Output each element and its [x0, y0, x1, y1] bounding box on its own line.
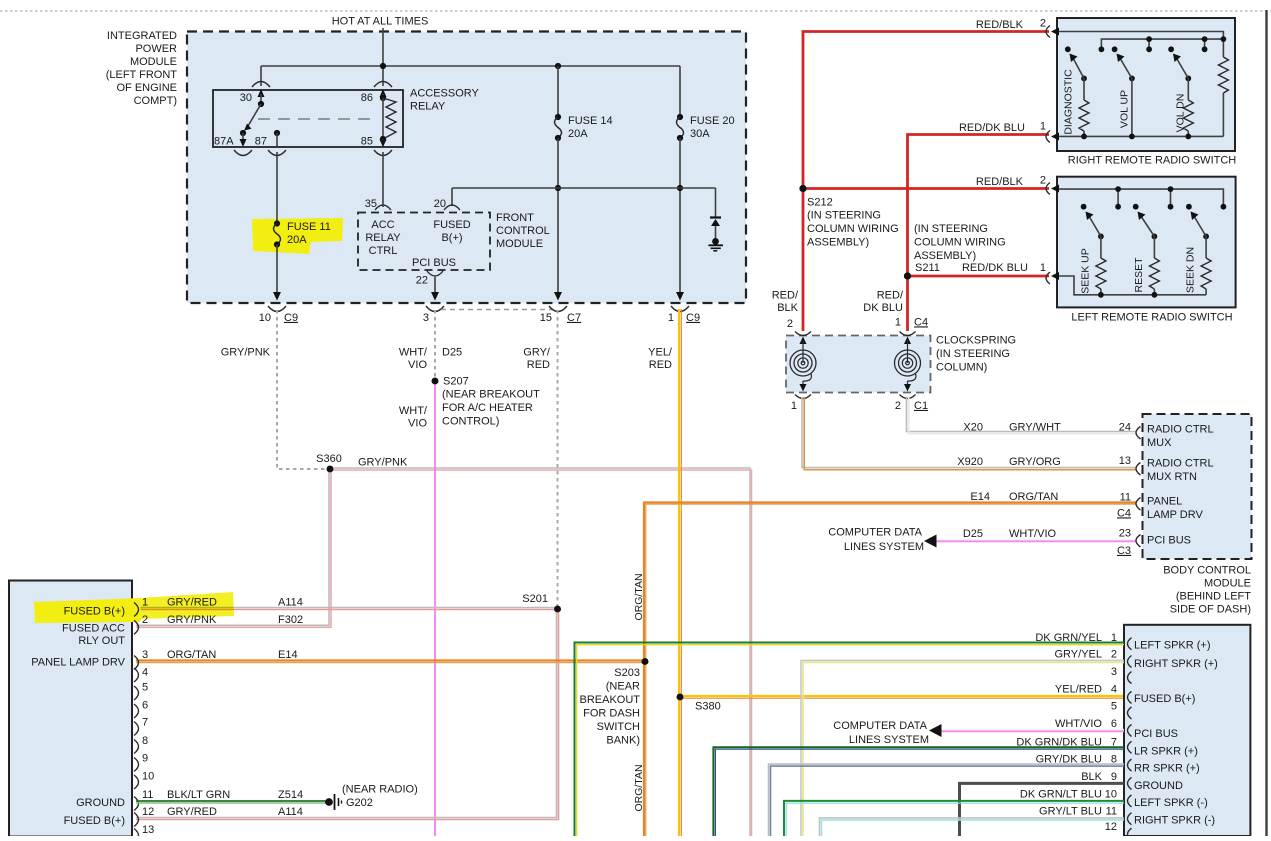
svg-text:10: 10 — [259, 312, 271, 324]
svg-text:ORG/TAN: ORG/TAN — [1009, 491, 1058, 503]
svg-text:87: 87 — [255, 135, 267, 147]
svg-text:LINES SYSTEM: LINES SYSTEM — [849, 734, 929, 746]
svg-text:RIGHT SPKR (-): RIGHT SPKR (-) — [1134, 814, 1215, 826]
svg-text:E14: E14 — [278, 649, 298, 661]
svg-text:13: 13 — [142, 824, 154, 836]
svg-text:ASSEMBLY): ASSEMBLY) — [914, 250, 976, 262]
svg-text:1: 1 — [895, 316, 901, 328]
node S380 dot overlay — [677, 694, 684, 701]
wire GRY/PNK dashed from C9-10 — [221, 310, 327, 469]
svg-text:FUSE 20: FUSE 20 — [690, 115, 735, 127]
node S201 — [522, 593, 561, 612]
wire ORG/TAN riser to BCM — [633, 503, 1136, 662]
radio connector pin arcs — [1128, 638, 1132, 841]
svg-text:2: 2 — [787, 318, 793, 330]
right switch vol dn contact — [1168, 46, 1174, 52]
svg-text:GRY/LT BLU: GRY/LT BLU — [1039, 806, 1102, 818]
relay pin 86 terminal — [361, 82, 392, 104]
right switch bottom bus — [1059, 134, 1223, 140]
accessory relay label — [410, 87, 480, 112]
svg-text:5: 5 — [142, 681, 148, 693]
svg-text:S360: S360 — [316, 453, 342, 465]
front control module label — [496, 212, 550, 250]
svg-text:7: 7 — [142, 716, 148, 728]
svg-text:FOR A/C HEATER: FOR A/C HEATER — [442, 402, 533, 414]
svg-text:PCI BUS: PCI BUS — [412, 257, 456, 269]
wire WHT/VIO S207 down — [399, 381, 435, 836]
ground G202 — [325, 783, 418, 810]
wire diode drop — [715, 188, 717, 218]
wire branch to fuse 20 — [679, 66, 681, 117]
wire GRY/WHT C1-2 to BCM 24 — [907, 397, 1137, 434]
left connector wire color labels — [167, 596, 230, 818]
switch SEEK UP — [1079, 212, 1106, 295]
ground in IPM — [708, 238, 723, 251]
svg-text:CLOCKSPRING: CLOCKSPRING — [936, 334, 1016, 346]
svg-text:RIGHT REMOTE RADIO SWITCH: RIGHT REMOTE RADIO SWITCH — [1068, 154, 1237, 166]
wire fcm pin20 drop — [451, 188, 453, 206]
wire hot bus horizontal — [261, 65, 680, 67]
wire DK GRN/DK BLU radio pin 7 — [714, 747, 1125, 836]
relay switch arm 30-87A — [240, 101, 264, 136]
svg-text:MODULE: MODULE — [496, 238, 543, 250]
relay pin 30 terminal — [240, 82, 270, 105]
svg-text:DK GRN/LT BLU: DK GRN/LT BLU — [1020, 789, 1102, 801]
wire 87 to fuse 11 — [276, 152, 278, 224]
left switch seek dn contact — [1186, 204, 1192, 210]
svg-text:VOL DN: VOL DN — [1174, 94, 1186, 133]
svg-text:S203: S203 — [614, 667, 640, 679]
svg-text:20: 20 — [434, 198, 446, 210]
node S207 — [432, 375, 540, 427]
svg-text:COMPUTER DATA: COMPUTER DATA — [833, 720, 927, 732]
wire GRY/YEL radio pin 2 — [801, 660, 1124, 836]
svg-text:F302: F302 — [278, 614, 303, 626]
wire YEL/RED from C9-1 — [648, 309, 681, 697]
svg-text:1: 1 — [1040, 262, 1046, 274]
radio left connector box — [9, 581, 132, 837]
svg-text:FUSED: FUSED — [433, 219, 470, 231]
wire ORG/TAN from radio pin 3 to S203 — [136, 661, 645, 663]
svg-text:LAMP DRV: LAMP DRV — [1147, 509, 1204, 521]
bcm pin 23 — [1117, 527, 1191, 557]
svg-text:(BEHIND LEFT: (BEHIND LEFT — [1176, 590, 1251, 602]
svg-text:6: 6 — [1111, 718, 1117, 730]
highlight pin 1 row — [34, 592, 234, 623]
clockspring coil left — [790, 332, 816, 399]
radio connector pin labels — [1134, 639, 1218, 826]
svg-text:24: 24 — [1119, 421, 1131, 433]
svg-text:20A: 20A — [568, 128, 588, 140]
svg-text:VIO: VIO — [408, 359, 427, 371]
svg-text:PANEL: PANEL — [1147, 495, 1182, 507]
svg-text:GROUND: GROUND — [76, 797, 125, 809]
svg-text:WHT/: WHT/ — [399, 346, 428, 358]
svg-text:3: 3 — [423, 312, 429, 324]
svg-text:RLY OUT: RLY OUT — [78, 635, 125, 647]
left switch bottom bus — [1059, 276, 1206, 298]
wire RED/DK BLU left switch pin 1 — [908, 262, 1050, 276]
fcm pin 20 — [434, 198, 460, 210]
svg-text:VIO: VIO — [408, 417, 427, 429]
svg-text:COLUMN): COLUMN) — [936, 361, 987, 373]
wire fuse20 to C9-1 — [676, 138, 684, 301]
svg-text:(LEFT FRONT: (LEFT FRONT — [106, 69, 178, 81]
svg-text:10: 10 — [1105, 789, 1117, 801]
svg-text:FUSED B(+): FUSED B(+) — [1134, 693, 1195, 705]
right switch pin 1 entry — [1046, 131, 1059, 143]
node S360 — [316, 453, 342, 472]
svg-text:4: 4 — [1111, 684, 1117, 696]
svg-text:WHT/VIO: WHT/VIO — [1009, 528, 1056, 540]
relay pin 87A terminal — [214, 133, 252, 156]
connector C1 labels — [791, 400, 928, 412]
wire WHT/VIO dashed from pin 3 — [399, 310, 462, 379]
svg-text:87A: 87A — [214, 135, 234, 147]
left connector pin labels — [31, 605, 125, 827]
fcm pin 35 — [365, 152, 391, 210]
svg-text:GRY/PNK: GRY/PNK — [358, 456, 408, 468]
svg-text:RED: RED — [649, 359, 672, 371]
svg-text:S212: S212 — [807, 196, 833, 208]
svg-text:6: 6 — [142, 699, 148, 711]
svg-text:FUSED B(+): FUSED B(+) — [64, 605, 125, 617]
svg-text:RED/BLK: RED/BLK — [976, 19, 1024, 31]
node S380 — [677, 694, 721, 713]
svg-text:E14: E14 — [970, 491, 990, 503]
node S201 dot overlay — [554, 606, 561, 613]
relay pin 87 terminal — [255, 130, 286, 156]
left switch seek up contact — [1081, 204, 1087, 210]
radio connector pin numbers — [1105, 632, 1117, 833]
svg-text:15: 15 — [540, 312, 552, 324]
svg-text:CONTROL): CONTROL) — [442, 415, 499, 427]
left switch reset contact — [1133, 204, 1139, 210]
svg-text:WHT/VIO: WHT/VIO — [1055, 718, 1102, 730]
svg-text:3: 3 — [1111, 666, 1117, 678]
diode D1 — [710, 218, 721, 242]
node S212 — [799, 185, 898, 249]
node junction fuse14 — [555, 63, 561, 69]
left switch pin 1 entry — [1046, 272, 1059, 284]
svg-text:CONTROL: CONTROL — [496, 225, 550, 237]
svg-text:LEFT REMOTE RADIO SWITCH: LEFT REMOTE RADIO SWITCH — [1071, 311, 1232, 323]
svg-text:S380: S380 — [695, 700, 721, 712]
svg-text:D25: D25 — [442, 346, 462, 358]
wire GRY/PNK S360 to right drop — [330, 456, 752, 836]
svg-text:RIGHT SPKR (+): RIGHT SPKR (+) — [1134, 658, 1218, 670]
switch RESET — [1133, 212, 1160, 295]
left remote radio switch box — [1057, 177, 1236, 324]
svg-text:9: 9 — [1111, 771, 1117, 783]
svg-text:RED/DK BLU: RED/DK BLU — [959, 122, 1025, 134]
svg-text:30A: 30A — [690, 128, 710, 140]
svg-text:LR SPKR (+): LR SPKR (+) — [1134, 745, 1198, 757]
wire DK GRN/YEL radio pin 1 — [575, 643, 1125, 837]
right switch diagnostic contact — [1065, 46, 1071, 52]
svg-text:85: 85 — [361, 135, 373, 147]
svg-text:GRY/PNK: GRY/PNK — [221, 346, 271, 358]
svg-text:COMPUTER DATA: COMPUTER DATA — [828, 526, 922, 538]
svg-text:INTEGRATED: INTEGRATED — [107, 30, 177, 42]
switch DIAGNOSTIC — [1062, 54, 1089, 137]
svg-text:4: 4 — [142, 666, 148, 678]
svg-text:12: 12 — [142, 806, 154, 818]
svg-text:13: 13 — [1119, 455, 1131, 467]
svg-text:S211: S211 — [915, 262, 940, 274]
wire ORG/TAN S203 down — [633, 662, 646, 837]
svg-text:COLUMN WIRING: COLUMN WIRING — [914, 236, 1006, 248]
svg-text:FOR DASH: FOR DASH — [583, 707, 640, 719]
svg-text:ACC: ACC — [371, 219, 394, 231]
svg-text:RED/DK BLU: RED/DK BLU — [962, 262, 1028, 274]
svg-text:COLUMN WIRING: COLUMN WIRING — [807, 223, 899, 235]
svg-text:RR SPKR (+): RR SPKR (+) — [1134, 762, 1200, 774]
relay coil — [380, 95, 396, 142]
svg-text:20A: 20A — [287, 234, 307, 246]
right switch vol up contact — [1112, 46, 1118, 52]
svg-text:DIAGNOSTIC: DIAGNOSTIC — [1062, 69, 1074, 135]
svg-text:GRY/RED: GRY/RED — [167, 596, 217, 608]
svg-text:C9: C9 — [284, 312, 298, 324]
svg-text:COMPT): COMPT) — [134, 95, 177, 107]
svg-text:DK BLU: DK BLU — [863, 302, 903, 314]
accessory relay box — [213, 90, 403, 147]
svg-text:PCI BUS: PCI BUS — [1134, 728, 1178, 740]
switch VOL DN — [1173, 54, 1193, 137]
svg-text:RED/: RED/ — [772, 289, 799, 301]
svg-text:RED/BLK: RED/BLK — [976, 176, 1024, 188]
svg-text:MUX: MUX — [1147, 437, 1172, 449]
svg-text:LEFT SPKR (+): LEFT SPKR (+) — [1134, 639, 1211, 651]
connector C9 pin 1 — [668, 306, 700, 324]
svg-text:MODULE: MODULE — [130, 56, 177, 68]
svg-text:S201: S201 — [522, 593, 548, 605]
svg-text:2: 2 — [142, 614, 148, 626]
svg-text:ORG/TAN: ORG/TAN — [633, 764, 645, 811]
bcm pin 13 — [1119, 455, 1214, 483]
body control module box — [1143, 414, 1252, 559]
bcm pin 11 — [1117, 491, 1204, 521]
svg-text:HOT AT ALL TIMES: HOT AT ALL TIMES — [332, 15, 429, 27]
svg-text:22: 22 — [416, 274, 428, 286]
svg-text:VOL UP: VOL UP — [1118, 90, 1130, 128]
svg-text:23: 23 — [1119, 527, 1131, 539]
svg-text:(IN STEERING: (IN STEERING — [936, 348, 1010, 360]
svg-text:86: 86 — [361, 92, 373, 104]
svg-text:GRY/PNK: GRY/PNK — [167, 614, 217, 626]
svg-text:(NEAR BREAKOUT: (NEAR BREAKOUT — [442, 388, 540, 400]
wire GRY/RED dashed from C7-15 — [523, 310, 557, 607]
left switch wire A — [1059, 186, 1226, 209]
wire GRY/RED S201 to pin 1 — [136, 608, 558, 610]
svg-text:FUSED ACC: FUSED ACC — [62, 622, 125, 634]
left switch pin 2 entry — [1046, 183, 1059, 195]
svg-text:30: 30 — [240, 92, 252, 104]
svg-text:1: 1 — [1040, 120, 1046, 132]
wire RED/DK BLU right switch pin 1 — [908, 120, 1050, 276]
svg-text:9: 9 — [142, 752, 148, 764]
svg-text:GRY/ORG: GRY/ORG — [1009, 456, 1061, 468]
svg-text:BANK): BANK) — [606, 734, 640, 746]
node S211 dot overlay — [904, 272, 911, 279]
computer data lines system label upper — [828, 526, 924, 553]
svg-text:(NEAR RADIO): (NEAR RADIO) — [342, 783, 418, 795]
svg-text:1: 1 — [668, 312, 674, 324]
svg-text:12: 12 — [1105, 821, 1117, 833]
svg-text:FUSE 14: FUSE 14 — [568, 115, 613, 127]
wire ORG/TAN label E14 — [970, 491, 1058, 503]
svg-text:ORG/TAN: ORG/TAN — [633, 573, 645, 620]
svg-text:RESET: RESET — [1133, 257, 1145, 293]
svg-text:CTRL: CTRL — [369, 245, 398, 257]
svg-text:Z514: Z514 — [278, 789, 303, 801]
integrated power module box — [187, 32, 746, 304]
fcm pin labels — [365, 219, 470, 269]
svg-text:11: 11 — [1120, 491, 1131, 503]
svg-text:RELAY: RELAY — [410, 100, 446, 112]
switch SEEK DN — [1184, 212, 1211, 295]
svg-text:GRY/YEL: GRY/YEL — [1055, 648, 1103, 660]
svg-text:PANEL LAMP DRV: PANEL LAMP DRV — [31, 656, 125, 668]
svg-text:YEL/: YEL/ — [648, 346, 673, 358]
svg-text:GRY/RED: GRY/RED — [167, 806, 217, 818]
right switch bus B — [1099, 36, 1227, 52]
svg-text:RELAY: RELAY — [365, 232, 401, 244]
svg-text:SWITCH: SWITCH — [597, 721, 640, 733]
svg-text:C4: C4 — [914, 316, 928, 328]
svg-text:BLK: BLK — [1081, 771, 1102, 783]
integrated power module label — [106, 30, 178, 107]
fcm pin 22 — [416, 271, 443, 301]
svg-text:1: 1 — [142, 596, 148, 608]
radio right connector box — [1124, 625, 1250, 836]
svg-text:(IN STEERING: (IN STEERING — [914, 223, 988, 235]
wire RED/BLK right switch pin 2 — [803, 17, 1049, 188]
svg-text:B(+): B(+) — [441, 232, 462, 244]
page right window border — [1265, 10, 1267, 836]
svg-text:(IN STEERING: (IN STEERING — [807, 209, 881, 221]
wire branch to fuse 14 — [557, 66, 559, 117]
svg-text:RADIO CTRL: RADIO CTRL — [1147, 457, 1214, 469]
svg-text:C4: C4 — [1117, 507, 1131, 519]
wire GRY/LT BLU radio pin 11 — [820, 818, 1125, 836]
svg-text:8: 8 — [142, 735, 148, 747]
svg-text:2: 2 — [1040, 17, 1046, 29]
wire RED/BLK left switch pin 2 — [803, 174, 1049, 188]
svg-text:SEEK UP: SEEK UP — [1079, 248, 1091, 294]
svg-text:OF ENGINE: OF ENGINE — [116, 82, 177, 94]
node S207 dot overlay — [432, 378, 439, 385]
connector pin 3 — [423, 306, 444, 324]
wire fcm pin20 bus — [452, 187, 716, 189]
svg-text:10: 10 — [142, 770, 154, 782]
wire GRY/RED S201 to pin 12 — [136, 609, 559, 820]
svg-text:2: 2 — [895, 400, 901, 412]
page top dotted separator — [0, 10, 1271, 12]
svg-text:2: 2 — [1040, 174, 1046, 186]
left connector circuit ids — [278, 596, 303, 818]
svg-text:BLK: BLK — [777, 302, 798, 314]
svg-text:BODY CONTROL: BODY CONTROL — [1163, 564, 1251, 576]
node S360 dot overlay — [327, 466, 334, 473]
fuse F20 — [677, 114, 735, 141]
svg-text:MODULE: MODULE — [1204, 577, 1251, 589]
svg-text:MUX RTN: MUX RTN — [1147, 471, 1197, 483]
node HOT AT ALL TIMES — [332, 15, 429, 27]
svg-text:ACCESSORY: ACCESSORY — [410, 87, 480, 99]
node S211 — [904, 223, 1006, 280]
svg-text:SIDE OF DASH): SIDE OF DASH) — [1170, 603, 1251, 615]
svg-text:ASSEMBLY): ASSEMBLY) — [807, 236, 869, 248]
svg-text:ORG/TAN: ORG/TAN — [167, 649, 216, 661]
svg-text:GRY/WHT: GRY/WHT — [1009, 421, 1061, 433]
relay pin 85 terminal — [361, 135, 392, 155]
wire DK GRN/LT BLU radio pin 10 — [784, 801, 1124, 836]
svg-text:A114: A114 — [278, 806, 303, 818]
wire WHT/VIO to BCM 23 — [924, 528, 1136, 548]
svg-text:BLK/LT GRN: BLK/LT GRN — [167, 789, 230, 801]
connector dashed link — [441, 309, 552, 311]
wire YEL/RED S380 down — [679, 697, 681, 836]
left connector pin numbers — [142, 596, 154, 836]
svg-text:11: 11 — [1106, 806, 1117, 818]
bcm pin 24 — [1119, 421, 1214, 449]
highlight over fuse 11 — [252, 218, 343, 254]
wire YEL/RED S380 to radio pin 4 — [680, 696, 1124, 698]
fuse F11 — [274, 220, 331, 247]
node junction hot/86 — [380, 63, 386, 69]
svg-text:X920: X920 — [957, 456, 983, 468]
svg-text:D25: D25 — [963, 528, 983, 540]
svg-text:SEEK DN: SEEK DN — [1184, 247, 1196, 293]
svg-text:C1: C1 — [914, 400, 928, 412]
svg-text:WHT/: WHT/ — [399, 405, 428, 417]
svg-text:2: 2 — [1111, 648, 1117, 660]
svg-text:3: 3 — [142, 649, 148, 661]
left connector pin arcs — [134, 603, 139, 841]
right switch wire A — [1059, 32, 1223, 58]
svg-text:GROUND: GROUND — [1134, 780, 1183, 792]
svg-text:11: 11 — [142, 789, 153, 801]
node S212 dot overlay — [799, 185, 806, 192]
svg-text:FUSE 11: FUSE 11 — [287, 221, 331, 233]
svg-text:RADIO CTRL: RADIO CTRL — [1147, 423, 1214, 435]
svg-text:C3: C3 — [1117, 545, 1131, 557]
computer data lines system label lower — [833, 720, 929, 746]
wire branch to relay pin 30 — [260, 66, 262, 86]
switch VOL UP — [1117, 54, 1135, 137]
connector C9 pin 10 — [259, 306, 298, 324]
svg-text:G202: G202 — [346, 797, 373, 809]
node junction fuse14/fcm20 — [555, 185, 561, 191]
node S203 dot overlay — [642, 658, 649, 665]
fuse F14 — [555, 114, 613, 141]
wire RED/BLK S212 to clockspring — [772, 189, 803, 332]
svg-text:X20: X20 — [963, 421, 983, 433]
svg-text:PCI BUS: PCI BUS — [1147, 534, 1191, 546]
front control module box — [358, 213, 490, 271]
svg-text:(NEAR: (NEAR — [606, 680, 640, 692]
clockspring box — [786, 334, 1016, 392]
clockspring coil right — [895, 332, 921, 399]
svg-text:BREAKOUT: BREAKOUT — [579, 694, 640, 706]
svg-text:YEL/RED: YEL/RED — [1055, 684, 1102, 696]
svg-text:C7: C7 — [567, 312, 581, 324]
node junction fuse20/diode — [677, 185, 683, 191]
svg-text:FUSED B(+): FUSED B(+) — [64, 815, 125, 827]
wire fuse 11 to C9-10 — [273, 245, 281, 301]
